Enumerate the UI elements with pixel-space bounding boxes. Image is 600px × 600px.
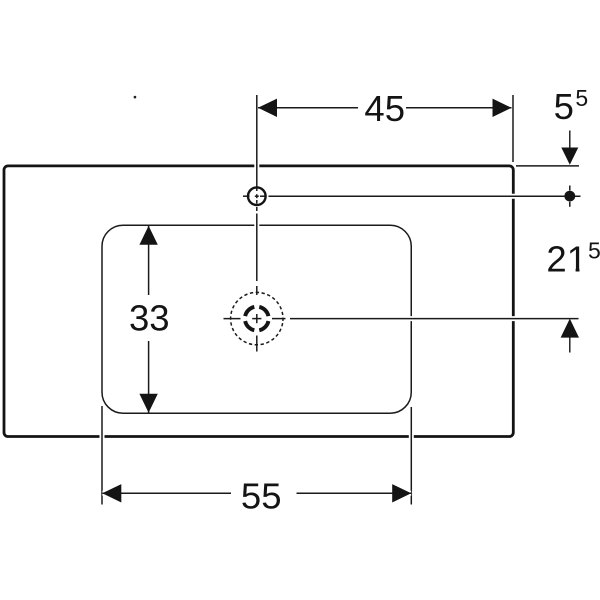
white casings for vertical thin lines [102, 95, 513, 505]
33 down arrow [139, 394, 157, 413]
drain centerline horizontal [224, 318, 241, 320]
center crosses drawn on top [252, 186, 570, 324]
faucet center tick [256, 194, 258, 198]
cover Liberation Sans "1" foot serifs to mimic Helvetica 1 [569, 268, 576, 273]
drain thick ring with 4 gaps [245, 307, 268, 330]
55 right arrow [392, 484, 411, 502]
extension line x=513 top right [512, 95, 514, 162]
dot ticks [569, 186, 571, 191]
centerline vertical segments x=256.8 [256, 95, 258, 191]
55 left arrow [102, 484, 121, 502]
45 dimension line [258, 107, 358, 109]
arrow shafts [569, 131, 571, 353]
svg-text:33: 33 [129, 297, 170, 338]
21.5 up arrow [561, 319, 579, 338]
45 left arrow [258, 99, 277, 117]
faucet centerline horizontal [243, 195, 250, 197]
svg-text:55: 55 [241, 475, 282, 516]
basin inner rounded rectangle [102, 225, 411, 413]
45 right arrow [493, 99, 512, 117]
extension line x=102 [101, 406, 103, 505]
33 up arrow [139, 226, 157, 245]
5.5 down arrow [561, 148, 578, 165]
svg-text:45: 45 [364, 88, 405, 129]
dimension end dot [564, 191, 575, 202]
33 dimension line vertical [148, 226, 150, 295]
arrowheads [102, 99, 579, 503]
stray speck [134, 96, 137, 99]
extension line x=411.3 [410, 407, 412, 505]
drain center cross [256, 314, 258, 323]
washbasin outer rectangle [4, 166, 513, 437]
top edge extension right [516, 165, 579, 167]
drain outer dashed circle [226, 288, 287, 349]
faucet hole circle [248, 187, 266, 205]
horizontal thin lines with white casing [102, 108, 580, 494]
55 dimension line [102, 492, 231, 494]
